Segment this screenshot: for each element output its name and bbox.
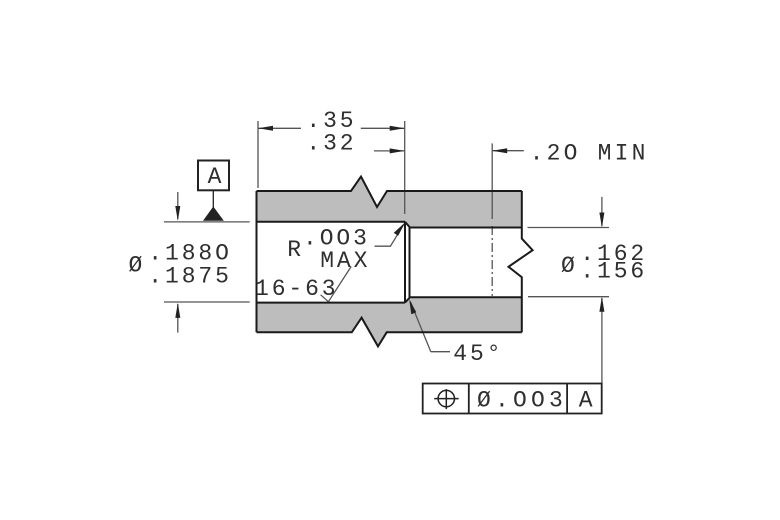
svg-text:.2O MIN: .2O MIN [530, 140, 649, 166]
svg-text:A: A [208, 164, 225, 190]
svg-text:.32: .32 [306, 130, 356, 156]
svg-text:16-63: 16-63 [255, 276, 339, 302]
svg-text:Ø.OO3: Ø.OO3 [477, 388, 567, 414]
svg-text:.156: .156 [580, 259, 647, 285]
svg-text:45°: 45° [453, 341, 503, 367]
svg-text:MAX: MAX [320, 248, 370, 274]
svg-text:Ø: Ø [129, 253, 146, 279]
svg-text:R: R [287, 237, 304, 263]
svg-text:Ø: Ø [561, 253, 578, 279]
svg-text:A: A [579, 388, 596, 414]
svg-text:.1875: .1875 [148, 263, 232, 289]
